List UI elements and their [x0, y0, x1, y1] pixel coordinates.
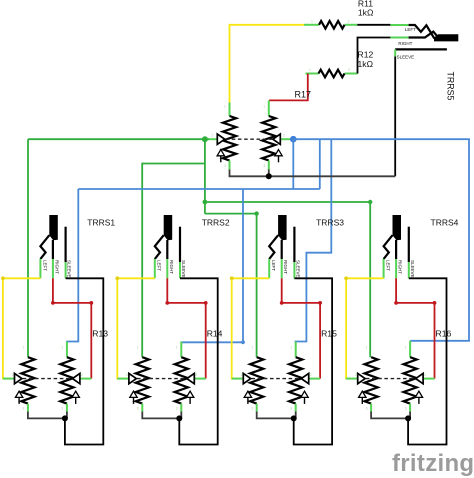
svg-text:1kΩ: 1kΩ	[358, 59, 374, 69]
wire red TRRS4 RIGHT to pot right wiper (net R16)	[396, 278, 434, 378]
pin numbers R13	[12, 346, 83, 411]
svg-text:SLEEVE: SLEEVE	[397, 54, 415, 59]
wire red TRRS3 RIGHT to pot right wiper (net R15)	[282, 278, 320, 378]
wire blue riser	[319, 139, 321, 189]
resistor R11	[304, 21, 357, 29]
wire gray pot R14 ground	[142, 412, 179, 419]
svg-text:TRRS2: TRRS2	[202, 217, 230, 227]
svg-text:RIGHT: RIGHT	[398, 41, 412, 46]
wire blue horizontal mid bus	[78, 188, 319, 190]
junction green B	[203, 200, 208, 205]
svg-text:LEFT: LEFT	[386, 260, 391, 271]
jack TRRS4	[384, 215, 415, 278]
node red bend TRRS3 b	[318, 301, 322, 305]
wire gray right gang ground stub	[268, 170, 270, 177]
junction ground TRRS1	[62, 415, 68, 421]
svg-text:R17: R17	[295, 89, 312, 99]
svg-text:1: 1	[263, 105, 265, 109]
junction master ground	[266, 173, 272, 179]
node red bend TRRS1 b	[89, 301, 93, 305]
svg-text:1: 1	[61, 346, 63, 350]
jack TRRS5	[390, 25, 458, 59]
node blue bend TRRS2	[241, 340, 245, 344]
svg-text:3: 3	[405, 407, 407, 411]
svg-text:1: 1	[22, 346, 24, 350]
svg-text:LEFT: LEFT	[405, 27, 416, 32]
svg-text:1: 1	[137, 346, 139, 350]
svg-text:TRRS5: TRRS5	[445, 72, 455, 101]
wire green to TRRS1 pot	[27, 139, 29, 357]
svg-text:1: 1	[309, 68, 311, 72]
svg-text:R15: R15	[321, 329, 337, 339]
svg-text:LEFT: LEFT	[157, 260, 162, 271]
pin numbers R14	[126, 346, 197, 411]
node green bend C	[368, 200, 372, 204]
wire red TRRS1 RIGHT to pot right wiper (net R13)	[53, 278, 91, 378]
svg-text:1: 1	[224, 105, 226, 109]
wire gray pot R13 ground	[28, 412, 65, 419]
svg-text:3: 3	[176, 407, 178, 411]
svg-text:3: 3	[290, 407, 292, 411]
svg-text:3: 3	[263, 164, 265, 168]
wire red R12 to master pot right gang (net R17)	[269, 74, 308, 101]
svg-text:TRRS3: TRRS3	[316, 217, 344, 227]
node red bend TRRS4 b	[433, 301, 437, 305]
node yellow bend TRRS2	[115, 276, 119, 280]
wire blue to TRRS3 pot	[295, 139, 332, 341]
svg-text:LEFT: LEFT	[42, 260, 47, 271]
svg-text:RIGHT: RIGHT	[283, 260, 288, 274]
potentiometer R15 (dual gang)	[232, 342, 320, 412]
wire black TRRS2 SLEEVE to pot ground	[179, 278, 217, 444]
jack TRRS3	[269, 215, 300, 278]
wire gray pot R15 right ground stub	[295, 412, 297, 419]
wire green master pot left wiper bus	[28, 138, 209, 140]
wire gray pot R16 right ground stub	[409, 412, 411, 419]
svg-text:1: 1	[311, 19, 313, 23]
wire gray pot R15 ground	[257, 412, 294, 419]
svg-text:R12: R12	[358, 50, 374, 60]
pin numbers R15	[241, 346, 312, 411]
svg-text:3: 3	[22, 407, 24, 411]
wire red TRRS2 RIGHT to pot right wiper (net R14)	[167, 278, 205, 378]
node red bend TRRS2 a	[165, 301, 169, 305]
wire gray pot R13 right ground stub	[66, 412, 68, 419]
svg-text:R16: R16	[436, 329, 452, 339]
svg-text:1: 1	[290, 346, 292, 350]
svg-text:1: 1	[251, 346, 253, 350]
node red bend TRRS4 a	[394, 301, 398, 305]
svg-text:SLEEVE: SLEEVE	[410, 260, 415, 278]
wire black TRRS3 SLEEVE to pot ground	[294, 278, 332, 444]
junction ground TRRS4	[405, 415, 411, 421]
wire yellow R11-left to master pot left gang	[230, 25, 305, 103]
node red bend TRRS2 b	[204, 301, 208, 305]
svg-text:2: 2	[241, 373, 243, 377]
potentiometer R14 (dual gang)	[117, 342, 205, 412]
svg-text:LEFT: LEFT	[271, 260, 276, 271]
wire blue to TRRS2 pot	[181, 189, 244, 342]
label R12 1k&#937;	[358, 50, 374, 70]
pin numbers R16	[355, 346, 426, 411]
wire black TRRS4 SLEEVE to pot ground	[408, 278, 446, 444]
wire blue right-wiper bus east	[293, 139, 469, 341]
svg-text:1: 1	[405, 346, 407, 350]
potentiometer R16 (dual gang)	[346, 341, 434, 412]
jack TRRS2	[155, 215, 186, 278]
wire blue to TRRS1 pot	[66, 189, 78, 342]
wire black R11 to TRRS5 LEFT	[357, 24, 390, 26]
wire green jog to TRRS2 pot	[142, 164, 205, 358]
svg-text:2: 2	[12, 373, 14, 377]
svg-text:3: 3	[251, 407, 253, 411]
svg-text:R14: R14	[207, 329, 223, 339]
wire black TRRS5 sleeve to master pot ground	[394, 57, 396, 177]
node red bend TRRS3 a	[280, 301, 284, 305]
svg-text:3: 3	[61, 407, 63, 411]
node yellow bend TRRS4	[344, 276, 348, 280]
svg-text:2: 2	[310, 373, 312, 377]
svg-text:RIGHT: RIGHT	[398, 260, 403, 274]
label R11 1k&#937;	[358, 0, 374, 17]
jack TRRS1	[40, 215, 71, 278]
wire blue down from wiper junction	[292, 139, 294, 189]
junction blue master right wiper	[290, 136, 297, 143]
wire yellow TRRS1 LEFT to pot left wiper	[3, 278, 41, 378]
svg-text:1: 1	[176, 346, 178, 350]
junction green A	[202, 136, 208, 142]
svg-text:R13: R13	[92, 329, 108, 339]
wire gray pot R14 right ground stub	[180, 412, 182, 419]
svg-text:RIGHT: RIGHT	[54, 260, 59, 274]
svg-text:2: 2	[355, 373, 357, 377]
resistor R12	[306, 70, 358, 78]
junction ground TRRS2	[176, 415, 182, 421]
svg-text:SLEEVE: SLEEVE	[67, 260, 72, 278]
svg-text:2: 2	[283, 134, 285, 138]
wire black R12 to TRRS5 RIGHT	[358, 38, 391, 74]
node red bend TRRS1 a	[51, 301, 55, 305]
wire green branch down from junction A	[204, 139, 206, 213]
svg-text:RIGHT: RIGHT	[169, 260, 174, 274]
junction ground TRRS3	[291, 415, 297, 421]
svg-text:1: 1	[366, 346, 368, 350]
wire gray master pot ground	[230, 170, 396, 177]
wire yellow TRRS2 LEFT to pot left wiper	[117, 278, 155, 378]
svg-text:1kΩ: 1kΩ	[358, 7, 374, 17]
node yellow bend TRRS1	[1, 276, 5, 280]
pin numbers R17	[212, 105, 286, 169]
node green bend D	[254, 211, 258, 215]
wire green to TRRS4 pot	[205, 202, 370, 357]
svg-text:2: 2	[424, 373, 426, 377]
potentiometer R13 (dual gang)	[3, 342, 91, 412]
svg-text:SLEEVE: SLEEVE	[181, 260, 186, 278]
svg-text:2: 2	[348, 68, 350, 72]
svg-text:2: 2	[212, 134, 214, 138]
svg-text:TRRS1: TRRS1	[87, 217, 115, 227]
svg-text:2: 2	[81, 373, 83, 377]
svg-text:fritzing: fritzing	[392, 450, 474, 477]
svg-text:3: 3	[137, 407, 139, 411]
potentiometer R17 (dual gang)	[209, 100, 290, 169]
node yellow bend TRRS3	[230, 276, 234, 280]
wire black TRRS1 SLEEVE to pot ground	[65, 278, 103, 444]
wire gray pot R16 ground	[371, 412, 408, 419]
svg-text:TRRS4: TRRS4	[431, 217, 459, 227]
wire yellow TRRS4 LEFT to pot left wiper	[346, 278, 384, 378]
svg-text:3: 3	[366, 407, 368, 411]
svg-text:2: 2	[195, 373, 197, 377]
svg-text:3: 3	[224, 164, 226, 168]
wire green to TRRS3 pot	[205, 214, 257, 358]
wire yellow TRRS3 LEFT to pot left wiper	[232, 278, 270, 378]
svg-text:SLEEVE: SLEEVE	[295, 260, 300, 278]
svg-text:2: 2	[348, 19, 350, 23]
svg-text:2: 2	[126, 373, 128, 377]
